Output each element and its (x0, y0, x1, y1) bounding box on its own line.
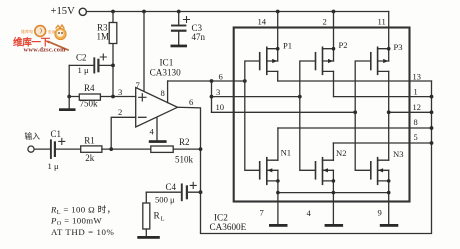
capacitor C4 500u (146, 182, 200, 205)
resistor R3 1M (97, 12, 117, 66)
svg-text:8: 8 (414, 118, 418, 127)
node: N2 source bus junction (332, 191, 336, 195)
svg-text:6: 6 (219, 72, 224, 82)
node: rail junction at R3 (111, 10, 115, 14)
wire: gate feed line pin6 of IC2 (168, 80, 245, 82)
ground (C3) (171, 45, 188, 48)
svg-text:2: 2 (323, 16, 327, 26)
svg-text:3: 3 (216, 87, 220, 97)
node: bus junction pin 8 (430, 126, 434, 130)
ground (IC2 pin 4) (325, 224, 344, 227)
svg-text:9: 9 (378, 207, 382, 217)
svg-text:3: 3 (118, 87, 122, 97)
wire: N2 drain line to pin 5 (333, 142, 431, 144)
svg-text:P3: P3 (394, 42, 403, 52)
wire: op-amp pin 7 to +15V (143, 12, 145, 92)
svg-text:7: 7 (260, 207, 265, 217)
svg-text:+15V: +15V (51, 6, 76, 17)
ground (IC2 pin 9) (380, 224, 399, 227)
svg-text:C4: C4 (166, 182, 177, 192)
wire: IC2 pin 4 ground lead (332, 202, 334, 225)
node: feedback junction (109, 147, 113, 151)
svg-text:P1: P1 (283, 41, 292, 51)
node: rail junction at op-amp pin7 (142, 10, 146, 14)
node: C2 right junction (111, 64, 115, 68)
node: R4 left junction (67, 95, 71, 99)
svg-text:510k: 510k (175, 155, 194, 165)
wire: C2 left to R4 left and ground (68, 65, 70, 108)
transistor P2 (298, 28, 348, 99)
resistor R1 2k (81, 135, 102, 163)
node: op-amp pin 3 junction (111, 95, 115, 99)
svg-text:1: 1 (414, 88, 418, 97)
svg-text:6: 6 (189, 97, 194, 107)
svg-text:500 μ: 500 μ (155, 194, 175, 204)
svg-text:RL = 100 Ω 时，: RL = 100 Ω 时， (50, 203, 116, 216)
wire: R3/C2 node down to pin 3 (112, 65, 114, 96)
transistor P3 (353, 28, 402, 115)
svg-text:10: 10 (216, 102, 225, 112)
svg-text:12: 12 (413, 103, 421, 112)
node: output/R2 junction (199, 147, 203, 151)
svg-text:R4: R4 (84, 83, 95, 93)
wire: +15V rail (87, 11, 389, 13)
svg-text:R1: R1 (84, 135, 95, 145)
svg-text:1 μ: 1 μ (78, 65, 89, 75)
+15V terminal (79, 8, 86, 15)
wire: pin 2 riser (333, 12, 335, 28)
node: N1 source bus junction (276, 191, 280, 195)
node: bus junction pin 1 (430, 95, 434, 99)
svg-text:N1: N1 (281, 148, 292, 158)
wire: output bus right side (201, 81, 432, 234)
svg-text:市场: 市场 (48, 29, 56, 35)
svg-text:L: L (161, 216, 165, 223)
wire: pin 8 riser to gate feed (167, 81, 169, 103)
svg-text:8: 8 (161, 88, 165, 98)
node: N3 source bus junction (387, 191, 391, 195)
svg-text:PO = 100mW: PO = 100mW (50, 215, 102, 227)
node: rail junction at C3 (177, 10, 181, 14)
wire: op-amp pin 2 to feedback node (111, 117, 136, 149)
transistor N3 (355, 112, 403, 201)
svg-text:1 μ: 1 μ (48, 161, 59, 171)
transistor P1 (243, 28, 292, 83)
wire: P2 source line to pin 1 (334, 96, 432, 98)
svg-text:11: 11 (378, 16, 386, 26)
wire: feed branch vertical (211, 81, 213, 112)
node: output/C4 junction (199, 190, 203, 194)
svg-text:R: R (154, 212, 161, 222)
svg-text:750k: 750k (80, 99, 99, 109)
svg-text:IC1: IC1 (160, 58, 174, 68)
IC2 CA3600E box (234, 28, 410, 202)
wire: pin 14 riser (277, 12, 279, 28)
svg-text:CA3130: CA3130 (150, 67, 182, 77)
svg-text:N3: N3 (393, 149, 404, 159)
node: feed branch junction top (210, 79, 214, 83)
wire: R1 to R2 (102, 148, 151, 150)
wire: P1 source line to pin 13 (278, 80, 432, 82)
wire: op-amp output pin 6 (178, 107, 201, 233)
wire: pin 11 riser (388, 12, 390, 28)
svg-text:P2: P2 (339, 40, 348, 50)
note text block (50, 203, 116, 237)
svg-text:C1: C1 (51, 129, 62, 139)
resistor R2 510k (151, 137, 201, 164)
ground (op-amp pin 4) (149, 140, 167, 143)
svg-text:R2: R2 (179, 137, 190, 147)
svg-text:维库电: 维库电 (21, 28, 33, 34)
resistor R4 750k (69, 83, 136, 109)
svg-text:输入: 输入 (25, 131, 41, 141)
svg-text:7: 7 (136, 80, 141, 90)
svg-text:C2: C2 (76, 52, 87, 62)
capacitor C3 47n (172, 12, 206, 45)
svg-text:5: 5 (414, 133, 418, 142)
svg-text:14: 14 (258, 16, 267, 26)
svg-text:47n: 47n (192, 32, 206, 42)
wire: IC2 pin 7 ground lead (277, 202, 279, 225)
ground (IC2 pin 7) (269, 224, 288, 227)
svg-text:CA3600E: CA3600E (210, 222, 247, 232)
ground (C2/R4) (59, 108, 76, 111)
input terminal 输入 (25, 131, 41, 152)
wire: internal source bus (278, 192, 389, 194)
ground (RL) (137, 236, 160, 239)
svg-text:4: 4 (150, 127, 155, 137)
resistor RL load (143, 192, 165, 236)
transistor N1 (245, 81, 291, 202)
node: P3 source / N3 drain junction (387, 110, 391, 114)
wire: pin 4 to ground (156, 118, 158, 141)
op-amp U1 CA3130 triangle (136, 58, 182, 137)
wire: IC2 pin 9 ground lead (388, 202, 390, 225)
svg-text:1M: 1M (97, 32, 110, 42)
svg-text:2: 2 (118, 107, 122, 117)
wire: N1 drain line to pin 8 (278, 127, 432, 129)
wire: P3/N3 output line to pin 12 (389, 111, 432, 113)
node: rail junction at pin14 (276, 10, 280, 14)
svg-text:IC2: IC2 (214, 213, 228, 223)
node: feed branch junction mid (210, 95, 214, 99)
node: rail junction at pin2 (332, 10, 336, 14)
transistor N2 (300, 97, 347, 202)
node: bus junction pin 5 (430, 141, 434, 145)
node: bus junction pin 12 (430, 110, 434, 114)
svg-text:www.dzsc.com: www.dzsc.com (24, 47, 67, 54)
watermark logo dzsc (13, 25, 68, 54)
svg-text:AT THD = 10%: AT THD = 10% (51, 227, 114, 237)
wire: gate feed line pin3 of IC2 (212, 96, 300, 98)
svg-text:4: 4 (307, 208, 312, 218)
capacitor C2 1u (69, 52, 113, 75)
svg-text:13: 13 (413, 73, 421, 82)
capacitor C1 1u (34, 129, 81, 171)
wire: gate feed line pin10 of IC2 (212, 111, 356, 113)
svg-text:N2: N2 (336, 148, 347, 158)
svg-text:2k: 2k (85, 153, 95, 163)
